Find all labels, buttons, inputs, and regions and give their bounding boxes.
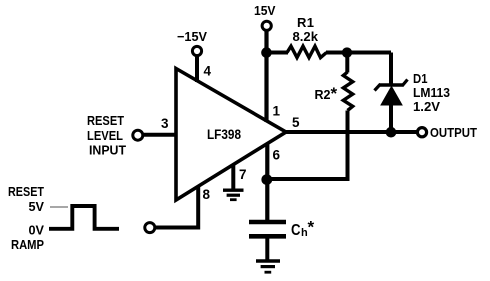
- svg-text:6: 6: [273, 148, 281, 163]
- svg-text:5: 5: [292, 115, 300, 130]
- svg-text:8: 8: [203, 187, 211, 202]
- svg-text:5V: 5V: [29, 199, 45, 214]
- svg-text:INPUT: INPUT: [89, 143, 126, 158]
- svg-text:8.2k: 8.2k: [293, 29, 319, 44]
- svg-text:LEVEL: LEVEL: [87, 128, 123, 143]
- svg-text:−15V: −15V: [177, 29, 207, 44]
- svg-text:LF398: LF398: [207, 126, 241, 142]
- svg-text:1.2V: 1.2V: [413, 99, 440, 114]
- svg-text:D1: D1: [413, 71, 428, 86]
- svg-text:RESET: RESET: [8, 184, 44, 199]
- svg-text:4: 4: [204, 64, 212, 79]
- svg-text:LM113: LM113: [413, 85, 450, 100]
- svg-text:0V: 0V: [29, 223, 45, 238]
- svg-text:3: 3: [161, 116, 169, 131]
- svg-text:R1: R1: [297, 15, 314, 30]
- svg-text:7: 7: [239, 167, 247, 182]
- svg-text:1: 1: [273, 104, 281, 119]
- svg-text:RAMP: RAMP: [11, 237, 44, 252]
- svg-text:OUTPUT: OUTPUT: [430, 125, 477, 140]
- svg-text:RESET: RESET: [87, 113, 124, 128]
- svg-text:*: *: [331, 84, 338, 103]
- svg-text:R2: R2: [315, 87, 331, 102]
- svg-text:*: *: [308, 218, 315, 237]
- svg-text:C: C: [291, 222, 301, 239]
- svg-text:15V: 15V: [254, 3, 276, 18]
